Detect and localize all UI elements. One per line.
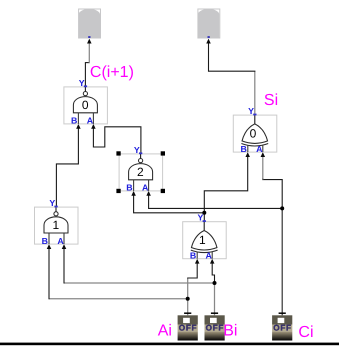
junction dot Ai net xyxy=(186,297,190,301)
svg-text:0: 0 xyxy=(250,126,257,140)
selection handle U2 top-right xyxy=(161,151,165,155)
svg-text:2: 2 xyxy=(137,165,144,179)
svg-text:Ai: Ai xyxy=(158,323,172,340)
wire NAND0.Y to LED1 segment gray vertical xyxy=(88,42,90,64)
wire Bi left vertical to NAND1.A xyxy=(63,248,65,284)
wire junction up to XOR0.B xyxy=(204,155,247,213)
junction dot Bi net xyxy=(213,281,217,285)
svg-text:B: B xyxy=(190,250,196,260)
LED output Si xyxy=(198,9,220,38)
wire Ai junction left gray xyxy=(49,298,188,300)
arrowhead into XOR0.B xyxy=(245,152,250,157)
svg-text:A: A xyxy=(256,144,263,154)
svg-text:A: A xyxy=(206,250,213,260)
arrowhead into NAND2.B xyxy=(131,191,136,196)
arrowhead into XOR0.A xyxy=(261,152,266,157)
wire XOR0.Y to LED2 vertical xyxy=(208,42,210,72)
wire NAND0.Y to LED1 segment horizontal xyxy=(85,62,89,64)
svg-text:Si: Si xyxy=(264,92,278,109)
wire Ai junction up gray xyxy=(187,278,189,299)
svg-text:Ci: Ci xyxy=(298,324,313,341)
LED output C(i+1) xyxy=(79,9,101,38)
selection handle U2 bottom-left xyxy=(116,189,120,193)
wire Ci junction up toward XOR0.A xyxy=(263,178,282,208)
svg-text:1: 1 xyxy=(52,218,59,232)
svg-text:Y: Y xyxy=(198,213,204,223)
arrowhead into XOR1.A xyxy=(210,259,215,264)
svg-text:Y: Y xyxy=(248,106,254,116)
switch Ai xyxy=(178,315,198,340)
svg-text:B: B xyxy=(42,236,48,246)
wire XOR1.Y stub up to junction xyxy=(203,213,205,221)
arrowhead into XOR1.B xyxy=(195,259,200,264)
switch Bi tick xyxy=(211,312,218,314)
svg-text:C(i+1): C(i+1) xyxy=(90,64,134,81)
arrowhead into LED2 xyxy=(206,39,211,44)
svg-text:1: 1 xyxy=(199,233,206,247)
switch Ci xyxy=(272,315,292,340)
wire Ai jog to XOR1.B xyxy=(187,262,197,278)
wire Bi junction up jog to XOR1.A xyxy=(212,262,214,283)
arrowhead into LED1 xyxy=(87,39,92,44)
junction dot XOR1.Y net xyxy=(202,211,206,215)
svg-text:B: B xyxy=(126,183,132,193)
svg-text:Y: Y xyxy=(49,198,55,208)
wire Ci switch up to junction xyxy=(281,208,283,315)
svg-text:B: B xyxy=(240,144,246,154)
xor gate X1 xyxy=(183,220,227,259)
arrowhead into NAND2.A xyxy=(146,191,151,196)
wire Ai left vertical to NAND1.B xyxy=(48,248,50,300)
svg-text:Y: Y xyxy=(79,78,85,88)
switch Ai tick xyxy=(184,312,191,314)
wire NAND2.Y to NAND0.A path xyxy=(93,127,140,154)
svg-text:Bi: Bi xyxy=(223,323,237,340)
wire Bi switch up to junction gray xyxy=(214,283,216,315)
arrowhead into NAND1.A xyxy=(62,244,67,249)
bottom border bar xyxy=(0,343,339,346)
selection handle U2 top-left xyxy=(116,151,120,155)
selection handle U2 bottom-right xyxy=(161,189,165,193)
nand gate U0 xyxy=(64,85,108,124)
xor gate X0 Si xyxy=(233,114,276,153)
wire Bi junction left gray xyxy=(64,282,215,284)
switch Ci tick xyxy=(279,312,286,314)
wire NAND0.Y to LED1 segment vertical xyxy=(84,63,86,87)
svg-text:A: A xyxy=(142,183,149,193)
svg-text:A: A xyxy=(87,116,94,126)
arrowhead into NAND1.B xyxy=(47,244,52,249)
wire XOR0.A gray stub xyxy=(262,155,264,179)
wire NAND1.Y to NAND0.B vertical xyxy=(56,127,78,207)
svg-text:A: A xyxy=(57,236,64,246)
svg-text:0: 0 xyxy=(82,98,89,112)
arrowhead into NAND0.B xyxy=(76,124,81,129)
wire junction to NAND2.B xyxy=(134,194,205,213)
svg-text:Y: Y xyxy=(134,145,140,155)
svg-text:B: B xyxy=(71,116,77,126)
wire XOR0.Y to LED2 horizontal xyxy=(209,70,256,72)
wire XOR0.Y to LED2 gray vertical xyxy=(254,71,256,114)
nand gate U2 selected xyxy=(119,152,163,191)
nand gate U1 xyxy=(35,206,79,245)
junction dot Ci net xyxy=(280,206,284,210)
switch Bi xyxy=(205,315,225,340)
wire Ci junction left to NAND2.A xyxy=(149,194,283,208)
arrowhead into NAND0.A xyxy=(91,124,96,129)
wire Ai switch up to junction gray xyxy=(187,299,189,316)
